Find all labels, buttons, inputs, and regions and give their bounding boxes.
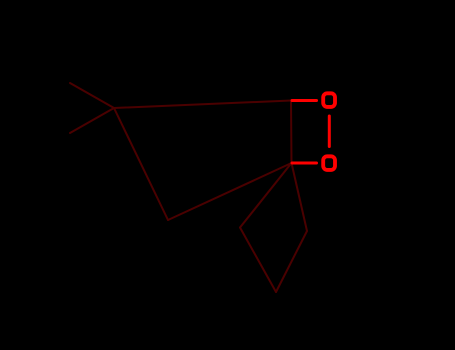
bond C3 to C7 long diagonal [114,101,291,109]
methyl lower on C7 [70,108,114,133]
methyl upper on C7 [70,83,114,108]
bond C4 to L [240,163,292,228]
atom O1 [323,93,335,107]
bond C3-O1 [292,99,317,102]
bond apex to R [276,231,307,292]
bond R to C4 [292,163,308,231]
bond C3-C4 left side of dioxetane [290,101,293,164]
bond B to C4 [168,163,292,220]
bond O1-O2 [328,116,331,147]
bond C7 to B [114,108,168,220]
bond O2-C4 [292,162,317,165]
bond L to apex [240,228,276,293]
atom O2 [323,156,335,170]
